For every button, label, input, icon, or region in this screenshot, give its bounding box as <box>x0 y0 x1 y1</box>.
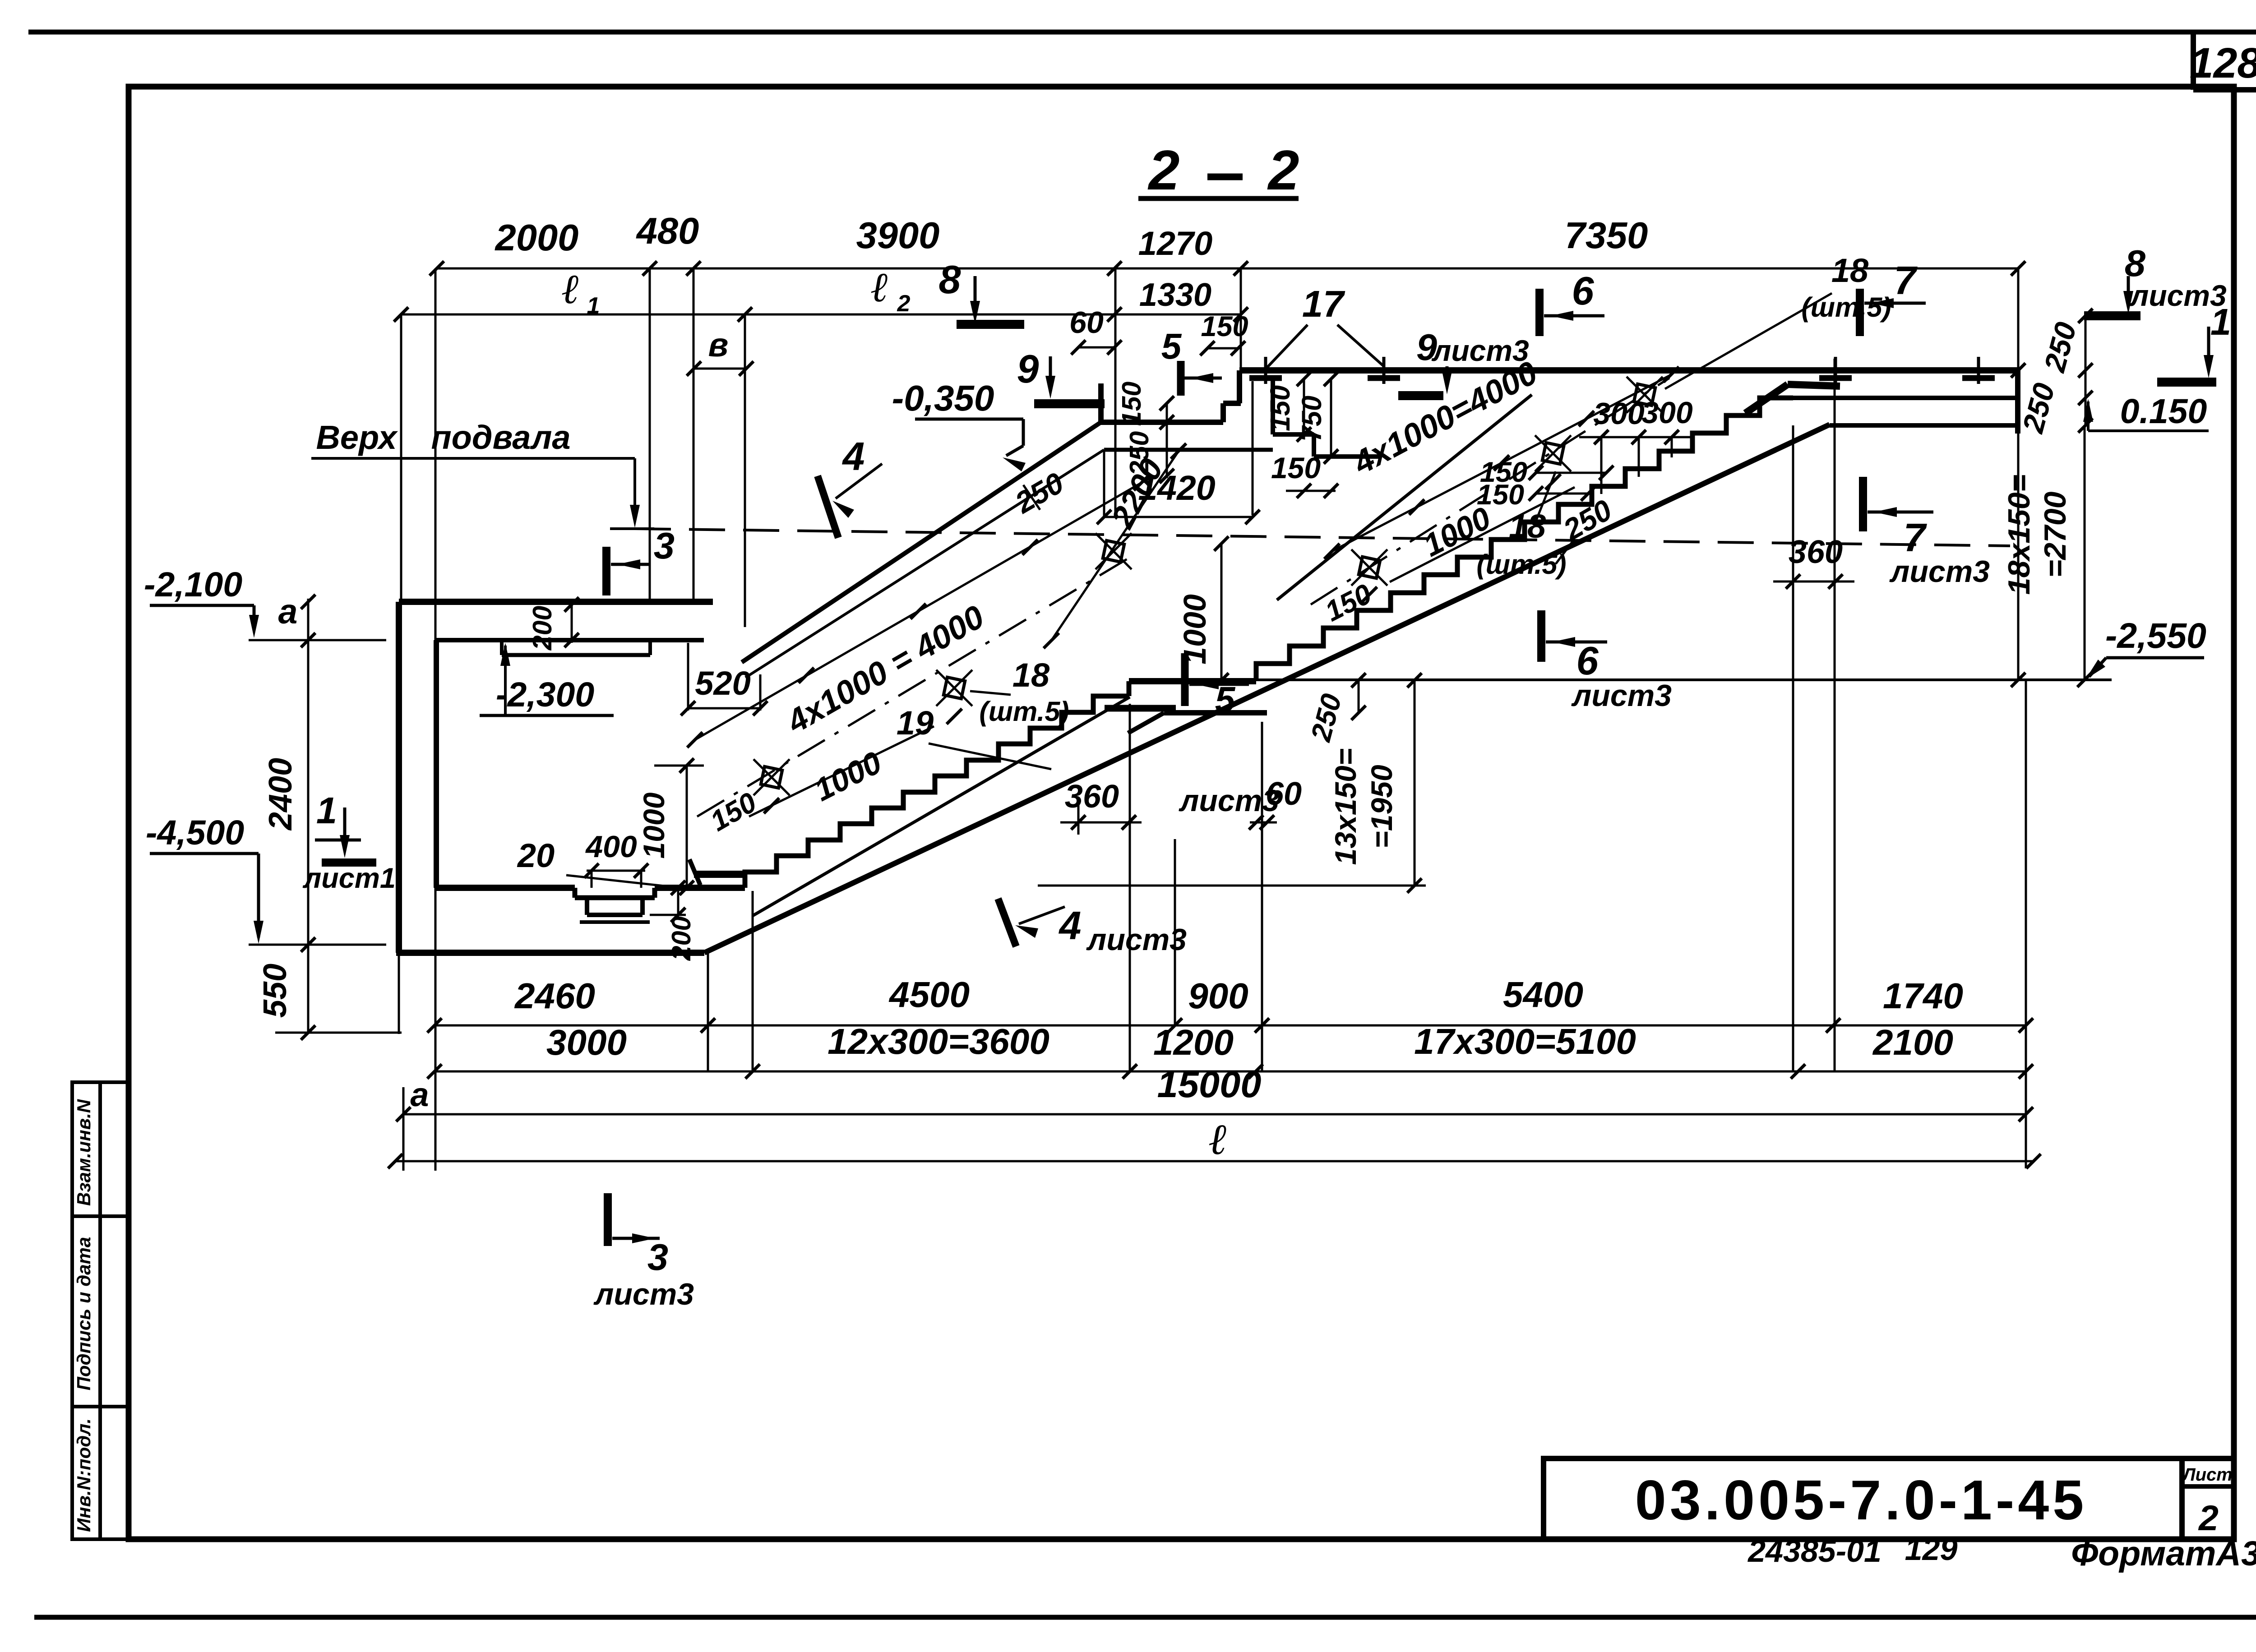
dim 520 <box>688 707 760 710</box>
section cut 6 (top) <box>1535 289 1544 336</box>
svg-text:9: 9 <box>1017 346 1039 391</box>
svg-text:24385-01: 24385-01 <box>1747 1533 1882 1569</box>
walkway edge steps at left <box>1237 370 1242 403</box>
svg-text:(шт.5): (шт.5) <box>1801 292 1891 323</box>
svg-text:5400: 5400 <box>1503 974 1583 1015</box>
svg-text:3900: 3900 <box>856 214 940 256</box>
svg-text:520: 520 <box>695 664 750 702</box>
small dim в <box>694 368 746 370</box>
small dim 60 <box>1078 346 1114 349</box>
section cut 7 лист3 (right) <box>1859 477 1867 531</box>
section cut 6 лист3 (bottom) <box>1537 610 1545 662</box>
svg-text:подвала: подвала <box>431 419 570 456</box>
svg-text:Верх: Верх <box>316 419 398 456</box>
foundation soffit diagonal (full length) <box>704 425 1830 953</box>
svg-text:2460: 2460 <box>514 976 595 1016</box>
svg-text:(шт.5): (шт.5) <box>979 696 1069 727</box>
section cut 4 (upper) <box>818 476 838 538</box>
svg-text:лист3: лист3 <box>1889 554 1990 589</box>
top landing right wall edge <box>2015 367 2020 434</box>
section cut 7 (top) <box>1856 289 1864 336</box>
first flight steps <box>745 696 1125 888</box>
dim 250 soffit flight2 <box>1556 540 1573 564</box>
svg-text:3: 3 <box>654 525 675 567</box>
top dimension row 2 (l1 l2) <box>401 314 1241 316</box>
svg-text:ℓ: ℓ <box>871 264 888 310</box>
svg-text:3: 3 <box>647 1236 668 1278</box>
base plate element 20 <box>694 871 745 878</box>
svg-text:-2,300: -2,300 <box>496 675 595 714</box>
riser to mid landing <box>1125 694 1129 699</box>
section cut 3 (mid left) <box>602 547 610 595</box>
svg-text:лист3: лист3 <box>1086 923 1187 957</box>
dim line 4x1000=4000 flight1 <box>695 483 1142 740</box>
dim 1000 vertical mid <box>1220 544 1223 680</box>
svg-text:400: 400 <box>585 830 637 864</box>
svg-text:1270: 1270 <box>1138 225 1213 262</box>
bottom chain row 4 (L) <box>395 1160 2034 1163</box>
bottom chain row 2 <box>435 1071 2026 1073</box>
svg-text:13х150=: 13х150= <box>1329 748 1362 865</box>
svg-text:7: 7 <box>1894 258 1918 303</box>
pit inner wall <box>434 640 439 888</box>
svg-text:ℓ: ℓ <box>562 266 579 312</box>
svg-text:4: 4 <box>1059 903 1082 948</box>
dim 200 sump depth <box>677 888 680 916</box>
dim 200 ledge <box>571 605 573 643</box>
mid landing soffit <box>1164 710 1267 715</box>
svg-text:=2700: =2700 <box>2038 491 2072 577</box>
svg-text:1: 1 <box>2210 301 2231 343</box>
svg-text:4: 4 <box>842 434 865 479</box>
page number box 128 <box>2191 32 2196 90</box>
beam under walkway at flight2 head <box>1271 379 1275 434</box>
axis a vertical dim <box>307 599 310 1034</box>
svg-text:128: 128 <box>2190 39 2256 87</box>
title block <box>1544 1458 2234 1539</box>
svg-text:18х150=: 18х150= <box>2002 475 2036 595</box>
waterproofing crosses 17 <box>1264 357 1267 384</box>
svg-text:ℓ: ℓ <box>1209 1115 1227 1163</box>
svg-text:5: 5 <box>1161 326 1182 366</box>
svg-text:15000: 15000 <box>1157 1063 1262 1105</box>
pit inner ceiling ledge <box>436 638 704 642</box>
dim 2200 headroom <box>1051 451 1179 641</box>
svg-text:0.150: 0.150 <box>2120 392 2207 431</box>
dim 250 landing slab <box>1358 680 1360 713</box>
mid landing floor <box>1129 678 1256 684</box>
sump pit <box>573 888 578 898</box>
section cut 4 лист3 (lower) <box>998 899 1016 946</box>
svg-text:-2,100: -2,100 <box>144 565 243 604</box>
bottom chain row 3 (15000) <box>403 1113 2026 1116</box>
svg-text:17: 17 <box>1302 283 1345 325</box>
dashed reference line (top of basement) <box>635 529 2010 546</box>
svg-text:Инв.N:подл.: Инв.N:подл. <box>73 1418 94 1532</box>
svg-text:900: 900 <box>1188 976 1248 1016</box>
svg-text:5: 5 <box>1215 679 1236 720</box>
ground walkway slab at -0.350 <box>1239 367 2018 374</box>
svg-text:03.005-7.0-1-45: 03.005-7.0-1-45 <box>1635 1469 2087 1532</box>
svg-text:1: 1 <box>587 293 600 319</box>
right 250 dims <box>2085 316 2087 426</box>
svg-text:750: 750 <box>1296 396 1327 442</box>
svg-text:7350: 7350 <box>1565 214 1648 256</box>
-2,550 level line <box>1256 678 2112 681</box>
svg-text:=1950: =1950 <box>1365 765 1398 849</box>
ceiling slab lines over first flight <box>742 422 1101 662</box>
bottom chain row 1 <box>435 1024 2026 1027</box>
svg-text:Взам.инв.N: Взам.инв.N <box>73 1098 94 1206</box>
svg-text:2: 2 <box>2198 1498 2219 1538</box>
dims 150 150 small <box>1536 472 1606 474</box>
svg-text:лист3: лист3 <box>1179 784 1279 818</box>
svg-text:лист3: лист3 <box>1571 678 1672 713</box>
section cut 3 лист3 (bottom) <box>604 1193 612 1246</box>
dim 1000 pit <box>686 766 688 888</box>
svg-text:-4,500: -4,500 <box>146 813 245 852</box>
pit bottom slab <box>396 950 704 956</box>
svg-text:Лист: Лист <box>2182 1465 2233 1485</box>
dim 1000 along flight1 <box>749 726 934 817</box>
svg-text:1330: 1330 <box>1139 277 1211 313</box>
svg-text:лист3: лист3 <box>593 1277 694 1311</box>
svg-text:6: 6 <box>1576 638 1599 683</box>
svg-text:18: 18 <box>1831 252 1869 289</box>
svg-text:лист1: лист1 <box>302 863 396 894</box>
svg-text:200: 200 <box>527 606 557 651</box>
svg-text:ФорматА3: ФорматА3 <box>2071 1534 2256 1573</box>
svg-text:а: а <box>410 1076 429 1113</box>
dim 360 (right) <box>1773 581 1854 583</box>
ceiling line over second flight <box>1277 395 1532 600</box>
svg-text:2100: 2100 <box>1872 1022 1953 1062</box>
svg-text:1740: 1740 <box>1883 976 1963 1016</box>
svg-text:480: 480 <box>636 210 699 252</box>
outer sheet border bottom <box>34 1615 2256 1620</box>
anchor centerline flight1 <box>697 557 1130 817</box>
svg-text:17х300=5100: 17х300=5100 <box>1414 1021 1636 1061</box>
dim 18x150=2700 <box>2011 363 2025 378</box>
left margin stamp strip <box>72 1082 129 1539</box>
top landing soffit <box>1830 423 2016 428</box>
dim 250 ceiling slab flight1 <box>1023 485 1040 510</box>
svg-text:(шт.5): (шт.5) <box>1476 549 1566 580</box>
anchor centerline flight2 <box>1311 378 1669 605</box>
svg-text:-2,550: -2,550 <box>2105 615 2206 655</box>
top dimension chain row 1 <box>437 268 2018 270</box>
svg-text:2: 2 <box>1148 139 1180 202</box>
second flight steps <box>1256 398 1793 681</box>
svg-text:18: 18 <box>1012 656 1050 694</box>
svg-text:а: а <box>278 592 298 631</box>
svg-text:150: 150 <box>1265 385 1295 431</box>
section cut 5 лист3 (mid) <box>1181 653 1189 706</box>
svg-text:150: 150 <box>1271 451 1321 485</box>
svg-text:-0,350: -0,350 <box>892 378 994 418</box>
outer sheet border top <box>28 30 2256 35</box>
basement pit outer wall <box>396 602 402 953</box>
level mark 0.150 <box>2087 401 2090 431</box>
svg-text:550: 550 <box>257 964 293 1018</box>
svg-text:8: 8 <box>939 257 961 302</box>
svg-text:200: 200 <box>666 916 696 961</box>
mid landing plate <box>1105 705 1176 712</box>
svg-text:2: 2 <box>1267 139 1299 202</box>
svg-text:60: 60 <box>1069 305 1104 340</box>
dim line 4x1000=4000 flight2 <box>1332 374 1672 551</box>
svg-text:3000: 3000 <box>546 1022 627 1062</box>
svg-text:2: 2 <box>897 291 911 317</box>
top landing floor <box>1793 396 2018 400</box>
extension lines bottom <box>707 953 709 1071</box>
svg-text:150: 150 <box>1201 311 1248 342</box>
svg-text:360: 360 <box>1065 779 1119 815</box>
top landing edge plate <box>1745 384 1788 413</box>
dims 300 300 <box>1579 436 1692 438</box>
beam dims 150 750 <box>1303 379 1305 435</box>
svg-text:Подпись и дата: Подпись и дата <box>73 1237 94 1390</box>
svg-text:129: 129 <box>1905 1532 1958 1567</box>
pit floor <box>436 885 575 891</box>
dim 13x150=1950 <box>1414 680 1416 886</box>
svg-text:1000: 1000 <box>637 792 670 858</box>
svg-text:4500: 4500 <box>888 974 970 1015</box>
dim 1420 <box>1104 516 1253 518</box>
anchor symbols flight1 <box>761 766 782 788</box>
svg-text:20: 20 <box>517 837 555 874</box>
dim 400 sump <box>587 870 645 872</box>
svg-text:7: 7 <box>1904 515 1928 560</box>
svg-text:2000: 2000 <box>495 217 579 258</box>
svg-text:12х300=3600: 12х300=3600 <box>828 1021 1049 1061</box>
basement pit top of wall <box>399 599 713 605</box>
svg-text:18: 18 <box>1509 508 1546 545</box>
svg-text:1: 1 <box>316 789 337 831</box>
svg-text:19: 19 <box>897 704 934 742</box>
first flight nosing base line <box>753 697 1130 916</box>
svg-text:150: 150 <box>1117 382 1146 426</box>
svg-text:1200: 1200 <box>1153 1022 1234 1062</box>
svg-text:2400: 2400 <box>263 758 299 831</box>
svg-text:6: 6 <box>1572 268 1595 313</box>
svg-text:в: в <box>708 326 729 364</box>
extension lines top <box>435 268 437 1171</box>
dim 1000 along flight2 <box>1390 487 1575 582</box>
